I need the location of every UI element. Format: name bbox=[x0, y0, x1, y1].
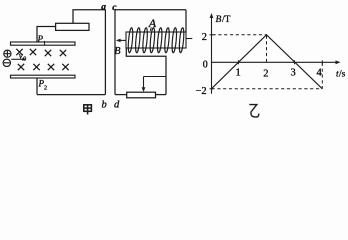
wire c side down bbox=[114, 10, 116, 95]
svg-text:2: 2 bbox=[202, 32, 207, 43]
tick t=3 bbox=[294, 60, 296, 64]
solenoid tube bbox=[126, 32, 186, 48]
waveform B(t) bbox=[212, 35, 323, 89]
svg-text:B: B bbox=[216, 15, 222, 25]
coil turns bbox=[128, 27, 185, 52]
field cross row 2 bbox=[18, 64, 69, 70]
svg-text:/s: /s bbox=[339, 70, 346, 80]
rheostat slider arrow bbox=[142, 77, 146, 93]
wire to rheostat left bbox=[115, 94, 127, 96]
tick B=2 bbox=[210, 34, 214, 36]
plate P2 bbox=[11, 75, 76, 78]
velocity arrow v0 bbox=[11, 58, 26, 61]
wire right side down bbox=[104, 10, 106, 95]
wire up to P2 bbox=[36, 78, 38, 95]
svg-text:2: 2 bbox=[263, 69, 268, 80]
wire coil left to rheostat right bbox=[126, 48, 166, 95]
wire bottom bbox=[37, 94, 105, 96]
label yi (figure 2) bbox=[249, 105, 259, 117]
label A coil bbox=[148, 16, 157, 31]
dashed vertical t=4 bbox=[321, 63, 323, 89]
svg-text:0: 0 bbox=[23, 56, 26, 62]
tick t=1 bbox=[238, 60, 240, 64]
resistor R1 bbox=[56, 23, 89, 30]
label P1 bbox=[37, 34, 47, 47]
field cross row 1 bbox=[16, 49, 66, 56]
svg-text:B: B bbox=[114, 46, 120, 57]
svg-text:/T: /T bbox=[222, 15, 231, 25]
dashed level B=2 bbox=[213, 34, 267, 36]
rheostat right lead bbox=[156, 94, 167, 96]
label B/T bbox=[216, 15, 231, 25]
solenoid right stub bbox=[186, 38, 192, 40]
label jia (figure 1) bbox=[84, 105, 92, 115]
svg-text:A: A bbox=[148, 16, 157, 30]
svg-text:b: b bbox=[102, 100, 107, 111]
svg-text:3: 3 bbox=[291, 68, 296, 79]
svg-text:d: d bbox=[114, 100, 120, 111]
svg-text:−2: −2 bbox=[196, 86, 207, 97]
rheostat slider bracket bbox=[144, 76, 167, 78]
wire P1 to resistor bbox=[37, 27, 56, 43]
positive particle source bbox=[4, 50, 11, 57]
wire c top bbox=[115, 9, 186, 11]
wire down to solenoid bbox=[185, 10, 187, 32]
graph y axis bbox=[210, 13, 214, 94]
graph x axis bbox=[212, 60, 341, 64]
svg-text:4: 4 bbox=[317, 68, 323, 79]
label t/s bbox=[336, 70, 346, 80]
svg-text:2: 2 bbox=[44, 86, 47, 92]
svg-text:0: 0 bbox=[203, 60, 208, 71]
wire resistor to node a bbox=[73, 10, 105, 23]
dashed level B=-2 bbox=[212, 88, 323, 90]
rheostat R2 bbox=[127, 92, 156, 98]
dashed vertical t=2 bbox=[266, 36, 268, 63]
B field arrow bbox=[116, 39, 126, 43]
svg-text:1: 1 bbox=[43, 41, 46, 47]
label v0 bbox=[19, 51, 26, 63]
tick B=-2 bbox=[210, 88, 214, 90]
plate P1 bbox=[11, 42, 76, 45]
tick t=4 bbox=[321, 60, 323, 64]
label P2 bbox=[38, 79, 48, 92]
negative particle source bbox=[3, 59, 10, 66]
svg-text:1: 1 bbox=[236, 68, 241, 79]
